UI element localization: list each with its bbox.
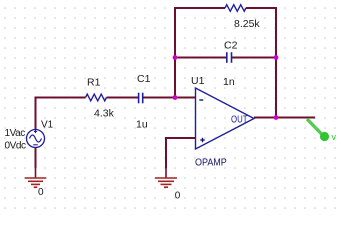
svg-text:0: 0 (175, 190, 181, 201)
source V1 circle (27, 130, 45, 148)
svg-text:0Vdc: 0Vdc (5, 141, 26, 152)
svg-text:v: v (332, 132, 337, 142)
svg-text:U1: U1 (191, 75, 205, 87)
op-amp U1 triangle (196, 88, 255, 149)
feedback resistor 8.25k (225, 5, 246, 12)
wire feedback left vertical (174, 7, 176, 98)
svg-text:R1: R1 (87, 77, 101, 89)
capacitor C2 (227, 52, 232, 63)
probe V marker (307, 119, 329, 141)
svg-text:OPAMP: OPAMP (195, 157, 227, 169)
ground 0 at source (25, 168, 47, 187)
wire feedback top left segment (175, 7, 225, 9)
wire output (254, 117, 315, 119)
svg-text:1u: 1u (136, 119, 148, 131)
wire feedback right vertical (275, 7, 277, 118)
wire input from source to R1 (36, 97, 86, 99)
source V1 minus marker (33, 144, 38, 146)
capacitor C1 (139, 93, 143, 104)
svg-text:1Vac: 1Vac (5, 128, 26, 139)
junction node output (274, 115, 279, 120)
resistor R1 4.3k (86, 94, 107, 101)
wire C2 right (232, 57, 276, 59)
op-amp minus marker (199, 99, 203, 101)
wire noninverting to ground (165, 137, 167, 168)
svg-text:C1: C1 (137, 73, 151, 85)
ground 0 at noninverting input (155, 168, 177, 187)
wire C2 left (175, 57, 227, 59)
wire source top (35, 97, 37, 130)
wire source bottom (35, 148, 37, 168)
svg-text:C2: C2 (224, 40, 238, 52)
svg-text:4.3k: 4.3k (94, 108, 115, 120)
wire feedback top right segment (246, 7, 276, 9)
junction node inverting input (173, 95, 178, 100)
svg-text:V1: V1 (41, 120, 54, 131)
svg-text:0: 0 (38, 187, 44, 198)
op-amp plus marker (200, 138, 204, 142)
source V1 sine (30, 135, 42, 142)
junction node C2 right (274, 55, 279, 60)
wire C1 to op-amp inverting input (143, 97, 196, 99)
wire noninverting input (166, 137, 196, 139)
wire R1 to C1 (107, 97, 139, 99)
svg-text:OUT: OUT (231, 114, 248, 125)
source V1 plus marker (34, 130, 37, 133)
svg-text:1n: 1n (223, 76, 235, 88)
junction node C2 left (173, 55, 178, 60)
svg-text:8.25k: 8.25k (234, 18, 260, 30)
